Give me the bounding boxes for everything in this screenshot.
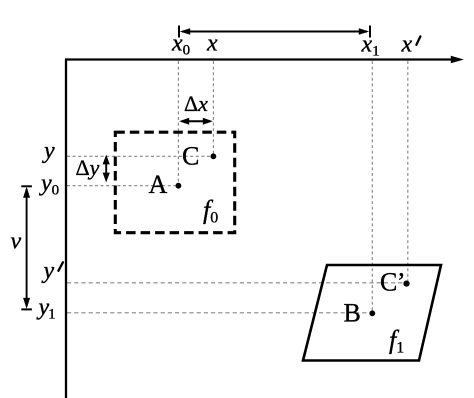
guide line vertical x0 (177, 61, 179, 184)
guide line horizontal y' (67, 282, 404, 284)
svg-text:x: x (401, 32, 413, 58)
guide line vertical x (212, 61, 214, 154)
svg-text:Δx: Δx (184, 91, 208, 116)
guide line vertical x' (407, 61, 409, 282)
point C dot (211, 153, 217, 159)
point C' dot (403, 281, 409, 287)
svg-text:x: x (206, 31, 218, 57)
svg-text:C: C (182, 142, 199, 171)
v dimension arrow (21, 186, 32, 309)
guide line vertical x1 (371, 61, 373, 311)
point B dot (369, 310, 375, 316)
x axis (horizontal) with arrowhead (65, 56, 464, 64)
delta-x dimension arrow (179, 118, 213, 125)
svg-text:y: y (42, 258, 55, 284)
y axis (vertical) (65, 60, 67, 398)
delta-y dimension arrow (103, 155, 110, 183)
svg-text:C’: C’ (380, 267, 406, 296)
parallelogram f1 (303, 265, 441, 361)
svg-text:y: y (42, 138, 55, 164)
dashed rectangle f0 (115, 132, 234, 233)
top dimension arrow x0..x1 (179, 26, 370, 38)
svg-text:v: v (11, 229, 22, 255)
svg-text:A: A (149, 170, 168, 199)
guide line horizontal y0 (67, 185, 176, 187)
svg-text:Δy: Δy (76, 155, 100, 180)
guide line horizontal y (67, 155, 211, 157)
guide line horizontal y1 (67, 312, 370, 314)
point A dot (176, 183, 182, 189)
svg-text:B: B (344, 298, 361, 327)
